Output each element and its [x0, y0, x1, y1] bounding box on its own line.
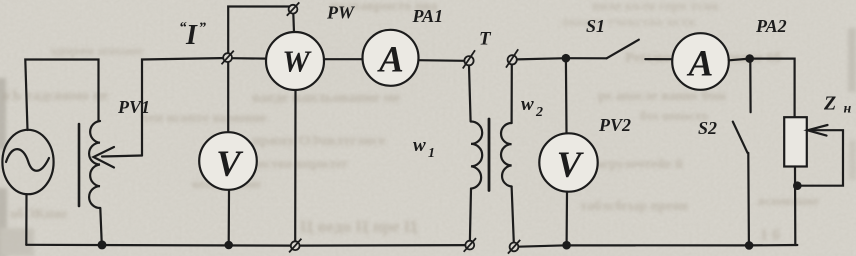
- wire S2 upper: [749, 61, 751, 112]
- switch S1 blade: [607, 40, 639, 59]
- svg-text:PA1: PA1: [412, 6, 444, 26]
- svg-text:PW: PW: [326, 3, 356, 23]
- wire source bottom: [25, 194, 27, 245]
- svg-text:н: н: [844, 102, 852, 117]
- wire load bottom lead: [794, 167, 796, 246]
- bottom wire (secondary side): [514, 245, 797, 247]
- wire S2 lower: [747, 153, 750, 245]
- terminal wattmeter voltage: [287, 2, 300, 15]
- wire wiper to node "I": [142, 58, 228, 156]
- svg-text:об ЗКние: об ЗКние: [10, 207, 67, 222]
- svg-text:w: w: [413, 135, 426, 156]
- svg-text:w: w: [521, 94, 534, 115]
- terminal symbols (circle with slash): [222, 2, 521, 253]
- svg-text:1: 1: [428, 146, 435, 161]
- wattmeter PW: [266, 32, 324, 90]
- wire PA1 to transformer w1 terminal: [419, 59, 465, 62]
- svg-text:ваеде напльованне ме: ваеде напльованне ме: [252, 90, 401, 106]
- ammeter PA2: [672, 33, 729, 90]
- wire w2 top lead: [511, 65, 513, 123]
- terminal w1 top: [463, 50, 475, 68]
- svg-text:1 б: 1 б: [760, 227, 780, 244]
- svg-text:ре апосле вание бмн: ре апосле вание бмн: [598, 89, 726, 104]
- junction PV1 bottom: [224, 241, 233, 250]
- svg-text:T: T: [479, 29, 492, 50]
- wire PV1 bottom: [228, 190, 231, 245]
- svg-text:теп исопте вкмоние: теп исопте вкмоние: [142, 111, 267, 126]
- svg-text:S1: S1: [586, 16, 605, 36]
- svg-text:вснование: вснование: [758, 193, 819, 208]
- AC source: [2, 130, 53, 194]
- svg-text:пряму ОЗчвлтгэнсе: пряму ОЗчвлтгэнсе: [252, 133, 386, 149]
- wire source top to autotransformer top: [25, 60, 98, 131]
- junction S2 bottom: [745, 241, 754, 250]
- transformer T core: [488, 119, 491, 191]
- svg-text:V: V: [216, 144, 244, 185]
- junction PV2 bottom: [562, 241, 571, 250]
- ammeter PA1: [363, 30, 419, 86]
- wire node "I" up to wattmeter voltage terminal: [228, 7, 292, 58]
- wire wattmeter bottom lead: [294, 91, 296, 242]
- voltmeter PV1: [199, 132, 257, 190]
- load wiper arrow and return wire: [797, 125, 843, 186]
- wire S1 contact to ammeter PA2: [645, 58, 672, 60]
- autotransformer wiper arrow: [94, 147, 143, 168]
- svg-text:PV1: PV1: [117, 97, 150, 117]
- svg-text:I: I: [185, 20, 198, 51]
- junction node top PA2/S2: [745, 54, 754, 63]
- svg-text:A: A: [377, 40, 404, 81]
- svg-text:эдприн нмоане: эдприн нмоане: [50, 44, 144, 59]
- terminal wattmeter bottom: [289, 239, 301, 253]
- wire PV2 top lead: [565, 58, 568, 133]
- junction node top S1: [562, 54, 571, 63]
- svg-text:лвоаие тчекство нстк: лвоаие тчекство нстк: [560, 15, 697, 30]
- wire w2 bottom lead: [512, 187, 514, 243]
- terminal node "I": [222, 51, 234, 65]
- wire node "I" to wattmeter: [232, 57, 266, 60]
- wire PA2 to load branch: [729, 59, 795, 117]
- terminal w1 bottom: [464, 238, 476, 252]
- wire w1 top lead: [469, 66, 471, 122]
- svg-text:Z: Z: [823, 93, 836, 115]
- svg-text:”: ”: [199, 20, 207, 36]
- switch S2 blade: [733, 122, 748, 153]
- voltmeter PV2: [539, 133, 597, 191]
- wire autotransformer bottom: [100, 208, 102, 245]
- wire node "I" down to voltmeter PV1: [227, 58, 229, 132]
- wire wattmeter voltage terminal to wattmeter top: [292, 13, 295, 32]
- load Z_n rectangle: [784, 117, 807, 166]
- wire w1 bottom lead: [470, 189, 471, 241]
- bottom wire (primary side): [26, 244, 470, 247]
- wire junction to S1 pivot: [566, 57, 607, 59]
- wire wattmeter to ammeter PA1: [324, 58, 362, 60]
- junction autotransformer bottom: [98, 240, 107, 249]
- wire PV2 bottom lead: [565, 192, 568, 245]
- junction load return: [793, 181, 802, 190]
- terminal w2 top: [506, 49, 518, 67]
- svg-text:2: 2: [535, 105, 543, 120]
- svg-text:S2: S2: [698, 118, 717, 138]
- svg-text:вЪ тадсвимо пе: вЪ тадсвимо пе: [2, 88, 108, 104]
- svg-text:нагрузочтейе й: нагрузочтейе й: [588, 157, 683, 172]
- svg-text:A: A: [687, 44, 714, 85]
- svg-text:визн колн горо тснк: визн колн горо тснк: [592, 0, 721, 14]
- svg-text:PV2: PV2: [598, 115, 631, 135]
- terminal w2 bottom: [508, 240, 520, 254]
- meter letters: [216, 40, 713, 187]
- autotransformer core bar: [78, 124, 81, 206]
- transformer winding w2: [501, 123, 512, 187]
- svg-text:V: V: [557, 145, 585, 186]
- wire w2 terminal to S1: [517, 58, 566, 59]
- svg-text:таблсбгыр пренв: таблсбгыр пренв: [580, 199, 689, 214]
- svg-text:Ц ведо Ц пре Ц: Ц ведо Ц пре Ц: [300, 217, 417, 236]
- autotransformer winding: [89, 121, 100, 208]
- svg-text:PA2: PA2: [755, 16, 787, 36]
- svg-text:W: W: [282, 44, 312, 79]
- transformer winding w1: [471, 122, 482, 189]
